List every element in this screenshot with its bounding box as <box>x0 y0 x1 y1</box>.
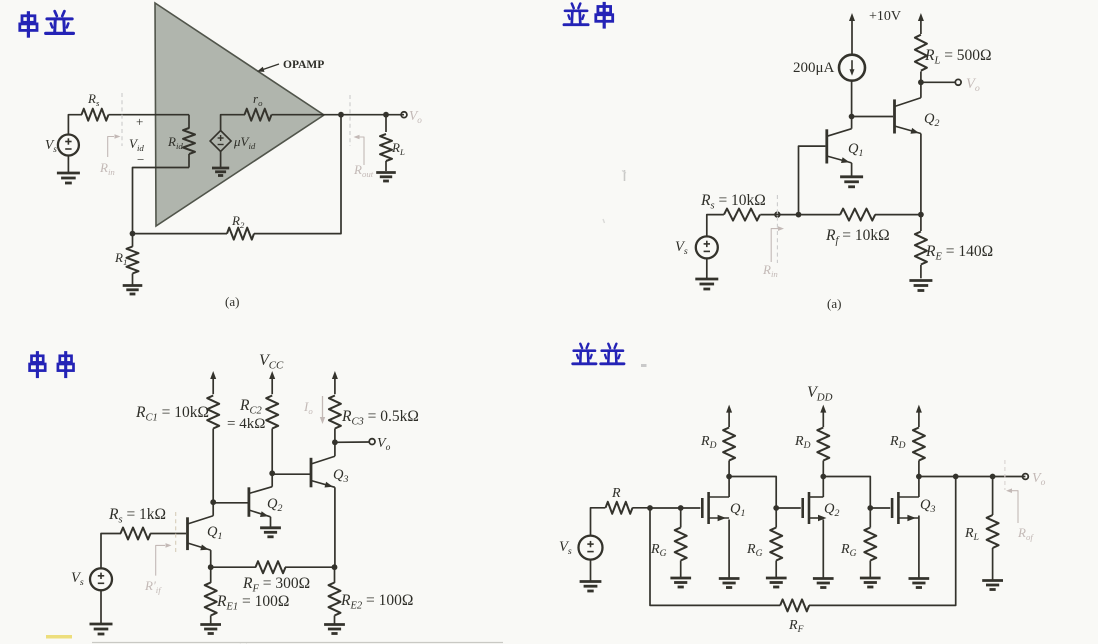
Q2 collector wire <box>271 473 273 486</box>
svg-text:RF = 300Ω: RF = 300Ω <box>242 575 310 594</box>
feedback wire BR <box>650 508 780 605</box>
resistor RC2 <box>227 396 278 474</box>
title 串並 (series-shunt) <box>20 11 74 38</box>
dependent source μVid <box>210 131 256 152</box>
svg-text:Vs: Vs <box>559 539 572 557</box>
svg-text:R′if: R′if <box>144 578 162 595</box>
svg-text:RC2: RC2 <box>239 397 262 416</box>
resistor RL4 <box>964 477 999 581</box>
ground under μVid <box>212 152 229 176</box>
node emitter2 <box>918 212 924 218</box>
svg-text:RL: RL <box>964 526 979 543</box>
node feedback <box>130 231 136 237</box>
wire to terminal Vo2 <box>921 81 956 83</box>
wire Vs3 up <box>101 534 121 569</box>
ground under RE2 <box>324 625 345 634</box>
svg-text:R1: R1 <box>114 250 127 267</box>
hook Rof <box>1006 488 1018 523</box>
node Q2 drain <box>820 474 826 480</box>
wire Vs to Rs <box>68 115 82 135</box>
feedback wire BR right <box>809 477 956 606</box>
faint scan mark mid <box>622 170 626 181</box>
terminal Vo4 <box>1023 471 1046 488</box>
title 並並 (shunt-shunt) <box>573 344 647 366</box>
feedback node right <box>332 564 338 570</box>
resistor Rf2 <box>799 209 921 247</box>
output bus BR <box>919 476 1026 478</box>
faint Io arrow <box>303 396 325 424</box>
ground under RG2 <box>766 578 787 587</box>
svg-text:RE1 = 100Ω: RE1 = 100Ω <box>216 593 289 612</box>
resistor RL <box>380 115 405 171</box>
ground under Vs <box>57 156 80 184</box>
transistor Q2 (BR) <box>803 492 840 524</box>
ground under RL4 <box>982 581 1003 590</box>
ground under RG1 <box>670 578 691 587</box>
resistor RE1 <box>205 567 290 624</box>
resistor RD3 <box>889 428 925 477</box>
svg-text:Rout: Rout <box>353 162 374 179</box>
ground under Q3 source <box>909 579 930 588</box>
resistor RF4 <box>780 599 809 635</box>
dashed line Rin2 <box>776 195 778 263</box>
Q1 collector wire <box>851 81 853 129</box>
label VDD <box>807 384 833 404</box>
resistor R2 <box>133 213 255 240</box>
open node Rin2 <box>775 212 780 217</box>
wire ro to apex and output <box>272 114 405 116</box>
transistor Q1 (TR) <box>827 129 864 164</box>
resistor ro <box>245 91 272 121</box>
label Rin2 <box>762 262 778 279</box>
Q3 base wire <box>272 473 311 475</box>
svg-text:RG: RG <box>746 542 763 559</box>
svg-text:Vs: Vs <box>45 137 57 154</box>
svg-text:Rof: Rof <box>1017 525 1034 542</box>
resistor Rs3 <box>108 506 166 540</box>
wire Q2 drain to Q3 gate <box>823 477 870 509</box>
node Q2 base <box>210 499 216 505</box>
transistor Q1 (BR) <box>702 492 745 524</box>
node Q3 gate <box>867 505 873 511</box>
node Q2 gate <box>773 505 779 511</box>
hook R'if <box>156 543 172 576</box>
svg-text:Vo: Vo <box>409 108 422 125</box>
svg-text:Vo: Vo <box>966 76 980 94</box>
svg-text:RE2 = 100Ω: RE2 = 100Ω <box>340 592 413 611</box>
svg-text:Q3: Q3 <box>920 497 935 515</box>
svg-text:RL = 500Ω: RL = 500Ω <box>924 47 992 66</box>
yellow mark bottom left <box>46 635 72 639</box>
node Q3 drain <box>916 474 922 480</box>
supply arrow RD2 <box>820 405 826 428</box>
resistor RC3 <box>329 396 419 443</box>
op-amp U1 triangle body <box>155 3 324 226</box>
wire Rs2 to node <box>760 214 798 216</box>
dashed line Rout <box>349 95 351 146</box>
ground under RE1 <box>200 625 221 634</box>
node RG1 <box>678 505 684 511</box>
Q2 base wire <box>213 502 249 504</box>
Q3 drain wire <box>918 477 920 498</box>
svg-text:RG: RG <box>650 542 667 559</box>
svg-text:Vo: Vo <box>1032 471 1046 488</box>
resistor RG1 <box>650 508 687 577</box>
ground under RE2t <box>909 281 932 291</box>
Q2 emitter wire down <box>920 134 922 215</box>
resistor RD2 <box>794 428 829 477</box>
svg-text:Vs: Vs <box>675 239 688 257</box>
svg-text:VDD: VDD <box>807 384 833 404</box>
Q1 collector wire <box>212 502 214 516</box>
bottom scan line BL <box>92 642 503 644</box>
svg-text:Vs: Vs <box>71 570 84 588</box>
node Q1 drain <box>726 474 732 480</box>
svg-text:Rs: Rs <box>87 91 100 108</box>
title 並串 (shunt-series) <box>564 2 613 29</box>
label (a) left <box>225 294 239 309</box>
supply arrow RC3 <box>332 371 338 394</box>
transistor Q1 (BL) <box>188 516 223 551</box>
ground under Vs2 <box>695 258 718 289</box>
svg-text:200μA: 200μA <box>793 60 835 76</box>
Q2 emitter to ground <box>270 517 272 527</box>
svg-text:R: R <box>611 486 621 501</box>
Q2 drain wire <box>822 477 824 498</box>
wire Vs4 up <box>591 508 606 536</box>
svg-text:Rin: Rin <box>762 262 778 279</box>
current source 200uA <box>793 55 865 81</box>
node Vo2 <box>918 79 924 85</box>
transistor Q2 (TR) <box>895 98 940 134</box>
svg-text:RD: RD <box>794 434 811 451</box>
svg-text:R2: R2 <box>231 213 245 230</box>
source Vs4 <box>559 536 603 560</box>
svg-text:+10V: +10V <box>869 9 901 24</box>
svg-text:Rs = 10kΩ: Rs = 10kΩ <box>700 192 766 211</box>
node RL4 <box>990 474 996 480</box>
wire Q1C to Q2 base <box>852 116 894 118</box>
ground under RG3 <box>860 578 881 587</box>
ground under Vs3 <box>90 590 113 634</box>
svg-text:Rf = 10kΩ: Rf = 10kΩ <box>825 227 890 246</box>
source Vs3 <box>71 568 112 590</box>
svg-text:RG: RG <box>840 542 857 559</box>
supply arrow RC1 <box>210 371 216 394</box>
resistor RD1 <box>700 428 735 477</box>
label − input <box>137 152 144 167</box>
faint speck <box>603 219 605 223</box>
ground under Q2 source <box>813 579 834 588</box>
hook Rin2 <box>771 226 784 262</box>
Rin hook arrow <box>108 134 121 157</box>
label Rin <box>99 160 115 177</box>
svg-text:Q2: Q2 <box>267 496 282 514</box>
svg-text:RC1 = 10kΩ: RC1 = 10kΩ <box>135 404 209 423</box>
Q2 source wire down <box>822 520 824 579</box>
supply arrow RC2 <box>269 371 275 394</box>
svg-text:Q2: Q2 <box>824 501 839 519</box>
node Vo3 <box>332 439 338 445</box>
svg-text:Q1: Q1 <box>207 524 222 542</box>
svg-text:−: − <box>137 152 144 167</box>
svg-text:(a): (a) <box>225 294 239 309</box>
svg-text:RL: RL <box>391 140 405 157</box>
ground under Q1 <box>840 177 863 187</box>
supply arrow +10V <box>849 9 901 55</box>
ground under Vs4 <box>580 560 602 591</box>
supply arrow RD1 <box>726 405 732 428</box>
svg-text:RD: RD <box>700 434 717 451</box>
svg-text:RC3 = 0.5kΩ: RC3 = 0.5kΩ <box>341 408 419 427</box>
label R'if <box>144 578 162 595</box>
OPAMP label with pointer arrow <box>257 59 324 72</box>
resistor RG2 <box>746 508 782 577</box>
ground under RL <box>376 173 396 182</box>
Q3 source wire down <box>918 516 920 579</box>
wire μVid top <box>221 115 245 131</box>
source Vs <box>45 135 79 156</box>
Q3 collector wire <box>334 442 336 456</box>
Q1 source wire down <box>728 520 730 579</box>
label Rof <box>1017 525 1034 542</box>
svg-text:(a): (a) <box>827 296 841 311</box>
Q3 gate wire <box>870 507 890 509</box>
resistor RL2 <box>915 13 992 82</box>
svg-text:Vo: Vo <box>377 436 391 453</box>
resistor R (BR) <box>606 486 651 514</box>
node at output <box>338 112 344 118</box>
terminal Vo <box>401 108 422 125</box>
node Q1 collector <box>849 114 855 120</box>
dashed line Rin <box>121 93 123 146</box>
wire − to feedback node <box>133 168 190 234</box>
terminal Vo2 <box>955 76 980 94</box>
svg-text:Rs = 1kΩ: Rs = 1kΩ <box>108 506 166 525</box>
Rout hook arrow <box>354 135 365 165</box>
svg-text:= 4kΩ: = 4kΩ <box>227 416 265 432</box>
label VCC <box>259 352 284 372</box>
feedback wire <box>254 115 341 234</box>
label (a) right <box>827 296 841 311</box>
resistor Rs <box>82 91 109 121</box>
node RF out <box>953 474 959 480</box>
svg-text:Q1: Q1 <box>730 501 745 519</box>
svg-text:Rin: Rin <box>99 160 115 177</box>
svg-text:RD: RD <box>889 434 906 451</box>
terminal Vo3 <box>369 436 390 453</box>
resistor RF3 <box>211 561 335 594</box>
resistor Rid <box>167 115 195 168</box>
partial (b) label <box>237 642 250 644</box>
node RL junction <box>383 112 389 118</box>
wire Rs to op-amp input <box>109 114 190 116</box>
svg-text:Io: Io <box>303 399 313 416</box>
svg-text:OPAMP: OPAMP <box>283 59 324 71</box>
transistor Q2 (BL) <box>249 487 283 517</box>
label + input <box>136 114 143 129</box>
svg-text:Vid: Vid <box>129 136 144 153</box>
supply arrow RD3 <box>916 405 922 428</box>
node Q3 base <box>269 470 275 476</box>
wire Rs3 to Q1 base <box>150 533 186 535</box>
source Vs2 <box>675 236 718 258</box>
node input BR <box>647 505 653 511</box>
svg-text:RE = 140Ω: RE = 140Ω <box>925 243 993 262</box>
title 串串 (series-series) <box>30 351 74 378</box>
svg-text:Q1: Q1 <box>848 141 863 159</box>
svg-text:Q2: Q2 <box>924 111 939 129</box>
wire Q1 drain to Q2 gate <box>729 477 776 509</box>
Q2 collector wire <box>920 82 922 98</box>
svg-text:+: + <box>136 114 143 129</box>
Q2 gate wire <box>776 507 801 509</box>
ground under Q2 <box>260 528 281 537</box>
wire node to Q1 base <box>799 146 826 215</box>
svg-text:RF: RF <box>788 618 804 635</box>
transistor Q3 (BL) <box>311 456 348 487</box>
wire to terminal Vo3 <box>335 441 369 443</box>
transistor Q3 (BR) <box>892 492 935 524</box>
resistor RG3 <box>840 508 876 577</box>
resistor R1 <box>114 234 139 285</box>
feedback node left <box>208 564 214 570</box>
resistor RE2t <box>915 215 993 279</box>
svg-text:VCC: VCC <box>259 352 284 372</box>
svg-text:Q3: Q3 <box>333 467 348 485</box>
gate bus wire <box>650 507 700 509</box>
Q3 emitter wire down <box>334 487 336 567</box>
dashed line at Q1 base <box>175 512 177 554</box>
label Vid <box>129 136 144 153</box>
resistor RE2 <box>329 567 414 624</box>
resistor Rs2 <box>700 192 766 221</box>
node input2 <box>796 212 802 218</box>
Q1 emitter wire down <box>210 550 212 567</box>
ground under R1 <box>123 286 143 295</box>
ground under Q1 source <box>719 579 740 588</box>
resistor RC1 <box>135 396 219 503</box>
wire Vs2 up <box>707 215 724 237</box>
Q1 emitter to ground <box>851 163 853 176</box>
Q1 drain wire <box>728 477 730 498</box>
faint dashes Rof <box>1004 460 1006 490</box>
label Rout <box>353 162 374 179</box>
